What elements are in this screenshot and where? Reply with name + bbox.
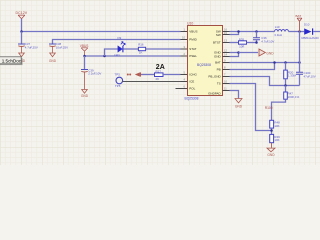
pin stub GNDPAD [223,90,230,92]
svg-text:D9: D9 [118,36,122,40]
ground GND (under C39) [81,90,89,98]
node junction port/cap [83,55,86,58]
svg-text:BAT: BAT [215,61,221,65]
power port VBUS (red, on PSEL net) [80,44,89,56]
wire R47 bottom elbow [272,99,286,120]
ground GND (sideways) [259,49,274,56]
svg-text:BTST: BTST [213,41,221,45]
wire TP5 to CE [123,81,181,83]
capacitor C36 (bootstrap) [253,32,274,44]
svg-text:10uF,25V: 10uF,25V [56,45,68,49]
svg-text:GND: GND [214,55,222,59]
pin stub BTST [223,42,230,44]
ground GND (under C37) [18,53,26,63]
ground GND (GNDPAD) [235,99,243,109]
power port DC12V [16,11,28,19]
IC U10 right pin names [208,30,221,96]
svg-text:2.2uF,10V: 2.2uF,10V [88,72,101,76]
svg-text:BAT: BAT [296,14,302,18]
wire probe to R17 [141,74,155,76]
wire VBUS net (top horizontal) [22,31,181,33]
capacitor C37 [18,42,38,53]
node BAT flag junction [298,30,301,33]
wire SW net [230,31,275,33]
svg-text:L10: L10 [275,25,280,29]
pin stub GND1 [223,52,230,54]
node GND join [237,51,240,54]
svg-text:R35: R35 [239,37,245,41]
svg-text:47uF,10V: 47uF,10V [304,74,316,78]
svg-text:2K: 2K [156,77,160,81]
svg-text:GND: GND [266,51,274,55]
wire GND to arrow [239,52,259,54]
capacitor C38 [49,42,68,53]
wire TS to divider tap [230,84,272,131]
svg-text:GNDPAD: GNDPAD [208,92,221,96]
pin stub TS [223,83,230,85]
svg-text:10R: 10R [239,44,244,48]
diode D10 [302,22,320,39]
node junction LED branch [103,55,106,58]
resistor R20 [284,63,297,86]
resistor R16 [138,42,145,54]
wire PMID net corner [53,40,181,44]
wire BAT net [230,62,300,64]
wire R17 to ICHG [163,74,181,76]
svg-text:1.33M: 1.33M [288,74,297,78]
wire PB elbow [230,63,275,70]
capacitor C39 [81,68,101,89]
node BAT junctions [273,61,276,64]
svg-text:BQ25308: BQ25308 [185,96,199,100]
svg-text:R17: R17 [156,69,162,73]
capacitor C100 [296,63,316,86]
wire cap C37 lead [21,32,23,44]
wire POL stub [176,88,188,90]
resistor R49 [270,134,280,148]
wire diode to edge [313,31,320,33]
pin stub PB [223,69,230,71]
svg-text:GND: GND [267,153,275,157]
svg-text:3.3uH: 3.3uH [274,33,282,37]
svg-text:/CE: /CE [189,80,194,84]
node VBUS junction [20,30,23,33]
wire R35 to cap [247,42,257,44]
svg-text:100K,1%: 100K,1% [288,95,300,99]
resistor R47 [284,86,300,100]
resistor R48 [270,120,280,134]
pin stub CE [181,81,188,83]
svg-text:R16: R16 [138,42,144,46]
svg-text:4.7uF,25V: 4.7uF,25V [25,45,38,49]
svg-text:GND: GND [49,59,57,63]
svg-text:PMID: PMID [189,38,197,42]
IC U10 left pin names [189,30,197,91]
probe marker (red arrow + dots) on ICHG [127,72,141,76]
wire L10 to diode [289,31,305,33]
ground GND (divider) [267,148,275,157]
svg-text:TP5: TP5 [115,72,121,76]
svg-text:STAT: STAT [189,47,196,51]
svg-text:D10: D10 [304,22,310,26]
wire PSEL net (y=56) [85,55,181,57]
svg-text:SW: SW [216,33,221,37]
IC U10 pin numbers [182,28,227,91]
svg-text:DC12V: DC12V [16,11,28,15]
svg-text:GND: GND [81,94,89,98]
wire R16 to STAT [146,48,181,50]
pin stub PMID [181,39,188,41]
svg-text:LED: LED [114,53,120,57]
svg-text:1K: 1K [139,50,143,54]
node SW join [237,30,240,33]
svg-text:ICHG: ICHG [189,73,197,77]
svg-text:U10: U10 [187,21,193,25]
node divider tap [270,129,273,132]
power port BAT (top right) [296,14,302,31]
node SW-cap junction [255,30,258,33]
pin stub SW2 [223,34,230,36]
IC U10 body [185,21,223,100]
pin stub GND2 [223,56,230,58]
wire main right vertical [299,32,301,63]
wire DC12V stem [21,19,23,32]
wire BTST to R35 [230,42,239,44]
wire PB_GND elbow to y85 rail [230,77,300,86]
svg-text:PB_GND: PB_GND [208,75,221,79]
svg-text:1.5chDoc: 1.5chDoc [2,59,22,64]
ground GND (under C38) [49,53,57,63]
svg-text:4.7uF,10V: 4.7uF,10V [261,39,274,43]
pin stub ICHG [181,74,188,76]
svg-text:10K: 10K [274,124,279,128]
svg-text:PB: PB [217,68,221,72]
tooltip 1.5chDoc [0,57,23,65]
svg-text:TP5: TP5 [115,84,121,88]
pin stub PB_GND [223,76,230,78]
pin stub STAT [181,48,188,50]
wire GND pins join [230,53,239,57]
svg-text:GND: GND [235,105,243,109]
pin stub SW1 [223,31,230,33]
svg-text:PSEL: PSEL [189,54,197,58]
svg-text:R100: R100 [265,106,273,110]
inductor L10 [274,25,288,37]
pin stub PSEL [181,55,188,57]
svg-text:VBUS: VBUS [80,44,89,48]
svg-text:TS: TS [217,82,221,86]
node y85 junction [284,84,287,87]
test point TP5 [115,72,123,88]
wire LED elbow [105,49,118,56]
resistor R35 [239,37,247,48]
resistor R17 [155,69,164,81]
wire LED to R16 [123,48,138,50]
pin stub VBUS [181,31,188,33]
wire cap C39 lead [84,56,86,69]
svg-text:BQ25308: BQ25308 [197,63,211,67]
pin stub BAT [223,62,230,64]
svg-text:RB811LAM40: RB811LAM40 [302,36,320,40]
wire SW2 join [230,32,239,35]
wire GNDPAD elbow [230,91,239,99]
LED D9 [114,36,125,57]
node BTST-cap junction [255,41,258,44]
svg-text:POL: POL [189,87,195,91]
svg-text:10K: 10K [274,138,279,142]
svg-text:VBUS: VBUS [189,30,197,34]
